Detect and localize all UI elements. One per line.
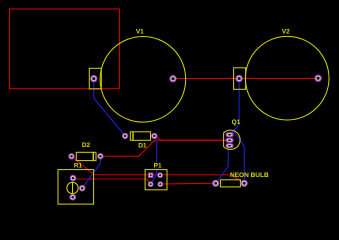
pad neon bulb right (241, 180, 248, 187)
pad P1 pin4 (157, 181, 163, 187)
pad V2 grid (235, 75, 242, 82)
wire D1 cathode to Q1 base top copper (154, 136, 229, 140)
pad V2 anode (314, 75, 321, 82)
pad V1 anode (169, 75, 176, 82)
wire V1 anode to V2 anode top copper (173, 78, 318, 80)
wire D2 anode diagonal to net A top copper (72, 156, 95, 174)
pad neon bulb left (212, 180, 219, 187)
tube V1 outline (100, 37, 186, 123)
potentiometer R1 adjust screw (67, 182, 78, 193)
pad V1 grid (90, 75, 97, 82)
pad P1 pin2 (157, 172, 163, 178)
svg-text:D2: D2 (82, 142, 91, 149)
connector P1 outline (145, 170, 167, 190)
pad R1 bottom (69, 194, 76, 201)
diode D1 cathode band (132, 132, 134, 141)
wire net A to neon bulb right pad top copper (231, 175, 245, 184)
wire V1 grid pad to D1 anode bottom copper (94, 79, 125, 136)
tube V2 grid pad box (234, 68, 246, 90)
potentiometer R1 outline (58, 170, 94, 205)
wire D2 cathode to R1 wiper bottom copper (82, 156, 100, 188)
pad Q1 emitter (226, 143, 234, 148)
pad Q1 collector (226, 132, 234, 137)
svg-text:R1: R1 (74, 163, 83, 170)
transistor Q1 outline (224, 130, 241, 149)
pad P1 pin1 square (148, 173, 153, 178)
svg-text:P1: P1 (154, 162, 162, 169)
diode D1 body (130, 132, 150, 141)
wire Q1 emitter to neon bulb left pad bottom copper (216, 146, 230, 184)
pad D1 anode (122, 133, 128, 139)
pad D1 cathode (151, 133, 157, 139)
svg-text:V2: V2 (282, 28, 290, 35)
wire Q1 collector to neon bulb right pad bottom copper (234, 131, 245, 184)
wire D2 cathode to D1 cathode top copper (100, 140, 154, 156)
svg-text:D1: D1 (138, 142, 147, 149)
wire D1 cathode to P1 pin3 bottom copper (151, 136, 157, 184)
wire P1 pin4 to neon bulb left pad top copper (160, 182, 215, 185)
pad D2 anode (68, 153, 74, 159)
wire top copper outline rectangle (10, 9, 120, 89)
svg-text:Q1: Q1 (232, 119, 241, 126)
wire R1 top pad to P1 pin3 dark (73, 178, 147, 180)
pad Q1 base (226, 138, 234, 143)
diode D2 cathode band (92, 152, 94, 160)
pad P1 pin3 (148, 181, 154, 187)
tube V2 outline (245, 36, 329, 120)
wire net A horizontal to P1 pin1 pin2 dark (94, 174, 231, 176)
pad R1 top (70, 175, 77, 182)
diode D2 body (76, 152, 96, 160)
pad R1 wiper (79, 185, 86, 192)
tube V1 grid pad box (89, 68, 101, 89)
wire V2 grid pad to Q1 collector bottom copper (230, 79, 239, 135)
svg-text:NEON BULB: NEON BULB (230, 172, 269, 179)
svg-text:V1: V1 (136, 29, 144, 36)
pad D2 cathode (97, 153, 103, 159)
neon bulb body (220, 180, 240, 187)
